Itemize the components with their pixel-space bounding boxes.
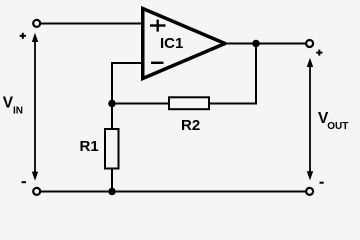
- terminal input + (open circle): [33, 20, 40, 27]
- svg-text:R1: R1: [80, 138, 99, 155]
- junction ground node: [108, 188, 116, 196]
- Vin measurement arrow line: [32, 33, 38, 181]
- junction output node: [252, 40, 260, 48]
- resistor R2: [169, 97, 209, 109]
- wire ground rail (bottom): [41, 191, 306, 193]
- wire node A to R2 left: [112, 103, 169, 105]
- svg-text:IN: IN: [13, 105, 23, 116]
- resistor R1: [105, 129, 119, 169]
- wire op-amp output to terminal: [228, 43, 306, 45]
- svg-text:R2: R2: [181, 117, 200, 134]
- Vin plus sign: [20, 33, 26, 39]
- wire non-inverting input (top rail): [41, 23, 143, 25]
- Vout plus sign: [316, 50, 322, 56]
- junction node A (inverting/R1/R2): [108, 100, 116, 108]
- op-amp minus input symbol: [151, 62, 164, 64]
- Vout minus sign: [320, 182, 324, 184]
- terminal input - (open circle): [33, 188, 40, 195]
- wire R1 bottom to ground rail: [111, 169, 113, 192]
- Vin minus sign: [22, 181, 27, 183]
- Vout measurement arrow line: [307, 58, 313, 181]
- op-amp U1 triangle: [143, 9, 225, 79]
- svg-text:IC1: IC1: [160, 35, 183, 52]
- wire node A down to R1: [111, 104, 113, 130]
- wire inverting input to feedback node: [112, 63, 142, 104]
- svg-text:OUT: OUT: [327, 121, 348, 132]
- op-amp plus input symbol: [150, 20, 166, 32]
- terminal output + (open circle): [306, 40, 313, 47]
- wire R2 right up to output: [210, 44, 257, 104]
- terminal output - (open circle): [306, 188, 313, 195]
